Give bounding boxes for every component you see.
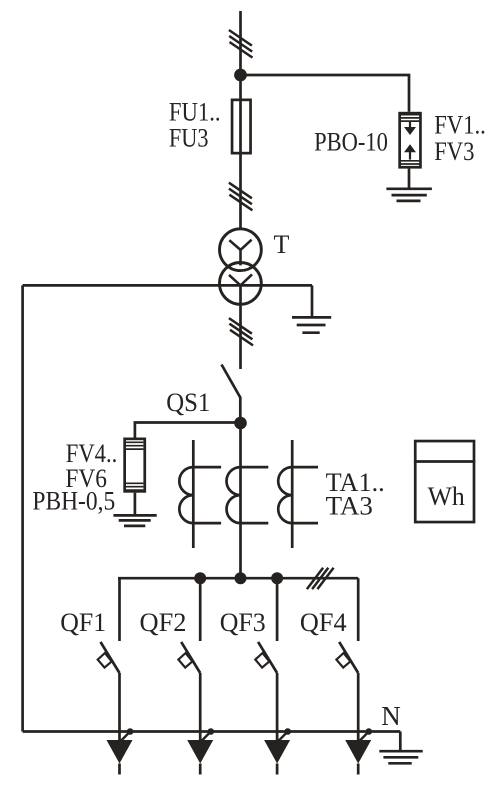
- node (bus tap QF2): [194, 572, 206, 584]
- surge arrester FV4..FV6 (PBH-0,5) body: [125, 439, 145, 492]
- wire: main line to bus: [239, 424, 242, 578]
- svg-text:QF4: QF4: [300, 608, 347, 637]
- bottom neutral line: [23, 730, 401, 733]
- wire: secondary horizontal: [23, 284, 312, 287]
- break marks (below fuse): [229, 183, 253, 211]
- ground (arrester FV4..FV6): [113, 514, 156, 517]
- feeder QF4 tap node and arrow: [345, 728, 372, 774]
- disconnector QS1 blade: [222, 365, 241, 398]
- svg-text:TA3: TA3: [326, 492, 373, 521]
- current transformer TA3 (right): [291, 440, 294, 548]
- break marks (below transformer): [229, 318, 253, 345]
- wire: arrester to ground: [134, 493, 137, 515]
- feeder QF3 tap node and arrow: [264, 728, 291, 774]
- wire: arrester to ground: [408, 169, 411, 188]
- current transformer TA2 (middle, on main line): [227, 467, 241, 523]
- node (bus feed main): [235, 572, 247, 584]
- wire: main line below transformer: [239, 285, 242, 369]
- wire: to transformer neutral ground: [311, 285, 314, 317]
- svg-text:Wh: Wh: [428, 482, 465, 511]
- ground (N): [379, 750, 422, 753]
- current transformer TA1 (left): [192, 440, 195, 548]
- energy meter Wh: [415, 441, 474, 522]
- svg-text:T: T: [274, 230, 290, 259]
- node A (junction to arrester branch): [234, 69, 247, 82]
- wire: far-left riser: [21, 285, 24, 731]
- svg-text:FU1..: FU1..: [169, 98, 221, 127]
- wire: main incoming vertical line: [239, 11, 242, 228]
- bus bar: [118, 577, 358, 580]
- feeder QF1 tap node and arrow: [107, 728, 134, 774]
- svg-text:РВО-10: РВО-10: [314, 127, 388, 156]
- wire: branch to arrester FV4..FV6: [135, 423, 241, 438]
- surge arrester FV1..FV3 (PBO-10) body: [400, 113, 421, 167]
- circuit breaker QF1: [98, 578, 120, 740]
- svg-text:FU3: FU3: [169, 124, 209, 153]
- ground (arrester FV1..FV3): [386, 187, 432, 190]
- svg-text:QF1: QF1: [60, 608, 106, 637]
- wire: branch to surge arrester FV1..FV3: [241, 75, 410, 112]
- transformer T upper winding: [220, 229, 262, 271]
- transformer T lower winding: [220, 263, 262, 305]
- wye symbol lower: [229, 274, 252, 285]
- svg-text:N: N: [381, 701, 401, 731]
- wire: N to ground: [399, 732, 402, 751]
- circuit breaker QF2: [178, 578, 200, 740]
- ground (transformer neutral): [292, 316, 331, 319]
- wire: below blade to junction: [239, 397, 242, 425]
- svg-text:QF3: QF3: [220, 608, 266, 637]
- wye symbol upper: [229, 240, 251, 266]
- svg-text:РВН-0,5: РВН-0,5: [32, 486, 115, 515]
- fuse FU1..FU3: [232, 100, 251, 153]
- circuit breaker QF4: [336, 578, 358, 740]
- break marks (top line break): [229, 30, 253, 58]
- node (bus tap QF3): [271, 572, 283, 584]
- node B (junction below QS1): [234, 417, 247, 430]
- arrester spark-gap arrows: [409, 122, 411, 129]
- svg-text:FV3: FV3: [434, 137, 474, 166]
- bus wire-count marks ///: [307, 568, 334, 589]
- svg-text:FV1..: FV1..: [434, 110, 486, 139]
- feeder QF2 tap node and arrow: [187, 728, 214, 774]
- circuit breaker QF3: [255, 578, 277, 740]
- svg-text:QF2: QF2: [140, 608, 187, 637]
- svg-text:QS1: QS1: [166, 388, 210, 417]
